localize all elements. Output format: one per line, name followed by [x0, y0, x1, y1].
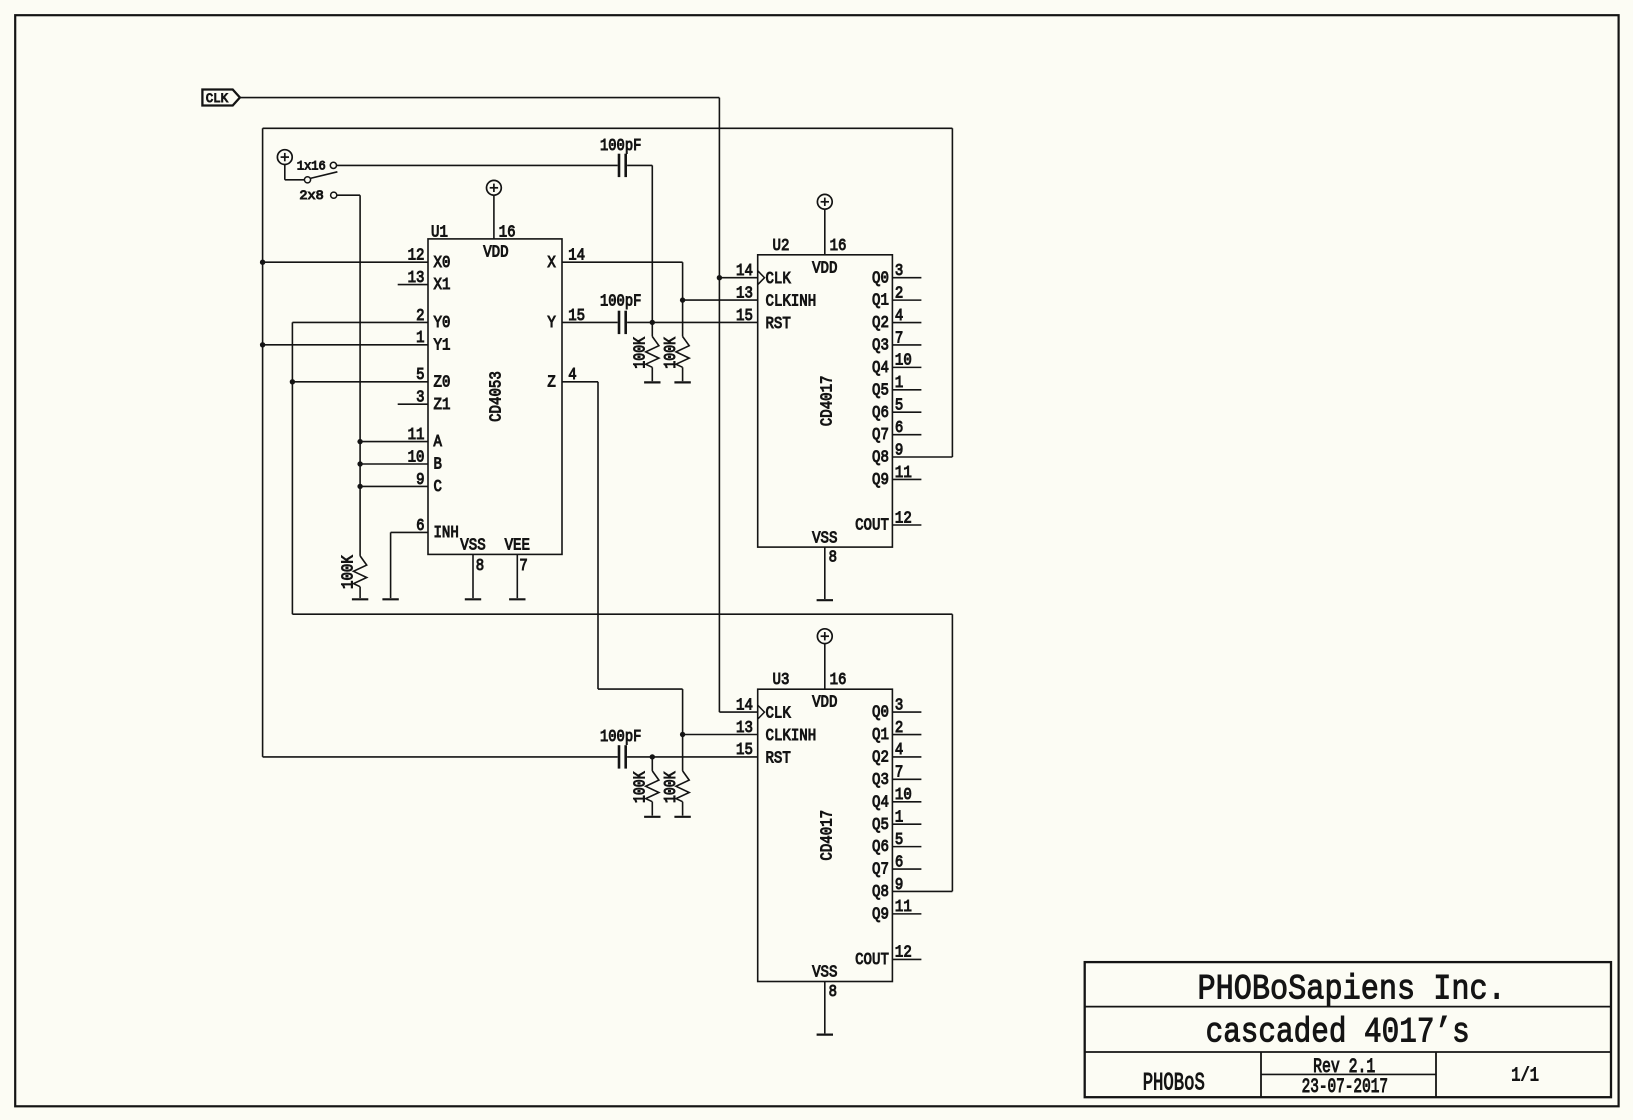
svg-text:12: 12: [895, 508, 912, 527]
svg-text:16: 16: [830, 236, 847, 255]
svg-text:13: 13: [736, 718, 753, 737]
svg-text:8: 8: [829, 982, 837, 1001]
svg-text:9: 9: [895, 440, 903, 459]
svg-text:U1: U1: [431, 223, 448, 242]
svg-text:VDD: VDD: [483, 243, 508, 262]
svg-text:Q6: Q6: [872, 837, 889, 856]
svg-text:CD4053: CD4053: [487, 371, 506, 422]
svg-text:13: 13: [736, 283, 753, 302]
svg-text:CLK: CLK: [206, 91, 229, 106]
svg-text:Q4: Q4: [872, 792, 889, 811]
svg-text:CD4017: CD4017: [818, 810, 837, 861]
svg-text:X0: X0: [434, 253, 451, 272]
svg-text:Q9: Q9: [872, 904, 889, 923]
svg-text:16: 16: [830, 670, 847, 689]
svg-text:7: 7: [895, 763, 903, 782]
svg-text:4: 4: [895, 306, 903, 325]
svg-text:RST: RST: [766, 314, 791, 333]
svg-text:COUT: COUT: [855, 950, 889, 969]
svg-text:15: 15: [736, 740, 753, 759]
svg-text:X: X: [547, 253, 555, 272]
svg-text:B: B: [434, 455, 442, 474]
svg-text:Q1: Q1: [872, 291, 889, 310]
svg-text:8: 8: [829, 547, 837, 566]
svg-text:100K: 100K: [631, 337, 650, 369]
svg-text:U3: U3: [773, 670, 790, 689]
svg-text:Z0: Z0: [434, 372, 451, 391]
svg-text:100K: 100K: [661, 771, 680, 803]
svg-text:CLK: CLK: [766, 269, 791, 288]
svg-text:CLKINH: CLKINH: [766, 292, 817, 311]
svg-text:Z: Z: [547, 372, 555, 391]
svg-text:11: 11: [408, 425, 425, 444]
svg-text:100pF: 100pF: [600, 292, 641, 311]
svg-text:X1: X1: [434, 275, 451, 294]
svg-text:100K: 100K: [338, 555, 357, 589]
svg-text:1/1: 1/1: [1511, 1065, 1539, 1087]
svg-text:11: 11: [895, 897, 912, 916]
svg-text:6: 6: [895, 852, 903, 871]
svg-text:100K: 100K: [661, 337, 680, 369]
svg-text:9: 9: [416, 470, 424, 489]
svg-text:CLK: CLK: [766, 704, 791, 723]
svg-text:VDD: VDD: [812, 258, 837, 277]
svg-text:CLKINH: CLKINH: [766, 726, 817, 745]
svg-text:C: C: [434, 477, 442, 496]
svg-text:Q9: Q9: [872, 470, 889, 489]
svg-text:Q2: Q2: [872, 748, 889, 767]
svg-text:2: 2: [895, 283, 903, 302]
svg-text:INH: INH: [434, 523, 459, 542]
svg-text:Q6: Q6: [872, 403, 889, 422]
svg-text:14: 14: [736, 695, 753, 714]
svg-text:3: 3: [895, 695, 903, 714]
svg-text:Q0: Q0: [872, 268, 889, 287]
svg-text:Q2: Q2: [872, 313, 889, 332]
svg-text:Y: Y: [547, 313, 555, 332]
svg-text:100pF: 100pF: [600, 136, 641, 155]
svg-text:7: 7: [519, 556, 527, 575]
svg-text:12: 12: [895, 943, 912, 962]
svg-text:6: 6: [895, 418, 903, 437]
svg-text:RST: RST: [766, 748, 791, 767]
svg-text:Q8: Q8: [872, 882, 889, 901]
svg-text:PHOBoS: PHOBoS: [1143, 1069, 1205, 1097]
svg-text:VEE: VEE: [505, 536, 530, 555]
svg-text:Q5: Q5: [872, 815, 889, 834]
svg-text:U2: U2: [773, 236, 790, 255]
svg-text:100pF: 100pF: [600, 727, 641, 746]
svg-text:8: 8: [476, 556, 484, 575]
svg-text:Q1: Q1: [872, 725, 889, 744]
svg-text:Q3: Q3: [872, 336, 889, 355]
svg-text:4: 4: [895, 740, 903, 759]
svg-text:VSS: VSS: [460, 536, 485, 555]
svg-text:2: 2: [895, 718, 903, 737]
svg-text:Z1: Z1: [434, 395, 451, 414]
svg-text:23-07-2017: 23-07-2017: [1302, 1076, 1388, 1099]
svg-text:16: 16: [499, 223, 516, 242]
svg-text:5: 5: [895, 396, 903, 415]
svg-text:1x16: 1x16: [297, 158, 326, 173]
svg-text:Q3: Q3: [872, 770, 889, 789]
svg-text:3: 3: [895, 261, 903, 280]
svg-text:PHOBoSapiens Inc.: PHOBoSapiens Inc.: [1198, 969, 1506, 1009]
svg-text:5: 5: [895, 830, 903, 849]
svg-text:12: 12: [408, 246, 425, 265]
svg-text:1: 1: [895, 373, 903, 392]
svg-text:Q0: Q0: [872, 703, 889, 722]
svg-text:7: 7: [895, 328, 903, 347]
svg-text:1: 1: [416, 328, 424, 347]
svg-text:Q4: Q4: [872, 358, 889, 377]
svg-text:cascaded 4017’s: cascaded 4017’s: [1206, 1012, 1470, 1052]
svg-text:2x8: 2x8: [299, 188, 323, 203]
svg-text:A: A: [434, 432, 442, 451]
svg-text:VDD: VDD: [812, 693, 837, 712]
svg-text:Y1: Y1: [434, 335, 451, 354]
svg-text:VSS: VSS: [812, 963, 837, 982]
svg-text:VSS: VSS: [812, 528, 837, 547]
svg-text:Q7: Q7: [872, 425, 889, 444]
svg-text:10: 10: [895, 351, 912, 370]
svg-text:11: 11: [895, 463, 912, 482]
svg-text:10: 10: [895, 785, 912, 804]
svg-text:CD4017: CD4017: [818, 376, 837, 427]
svg-text:10: 10: [408, 447, 425, 466]
svg-text:9: 9: [895, 875, 903, 894]
svg-text:Q8: Q8: [872, 448, 889, 467]
svg-text:Y0: Y0: [434, 313, 451, 332]
svg-text:COUT: COUT: [855, 516, 889, 535]
svg-text:100K: 100K: [631, 771, 650, 803]
svg-text:Q5: Q5: [872, 380, 889, 399]
svg-text:Q7: Q7: [872, 860, 889, 879]
svg-text:1: 1: [895, 808, 903, 827]
svg-text:15: 15: [736, 306, 753, 325]
svg-text:14: 14: [736, 261, 753, 280]
